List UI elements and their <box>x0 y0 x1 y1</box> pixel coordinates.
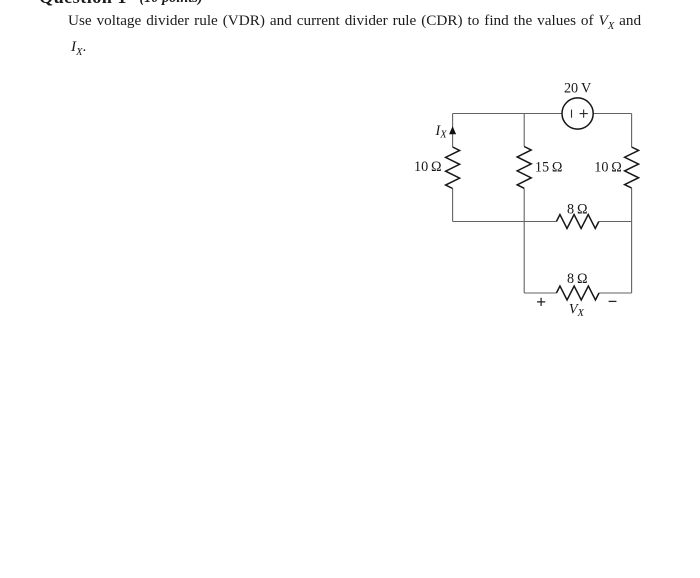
source minus terminal bar <box>571 110 573 118</box>
wire right column lower run <box>631 188 633 293</box>
paragraph line 1 <box>68 12 641 32</box>
wire middle column lower run <box>523 188 525 293</box>
svg-text:8 Ω: 8 Ω <box>567 271 587 287</box>
label minus sign of Vx <box>609 300 617 302</box>
source plus terminal sign <box>580 110 588 118</box>
wire middle column upper lead <box>523 114 525 147</box>
voltage source V1 circle 20V <box>562 98 593 129</box>
heading Question 1 (10 points), cut off at top <box>39 0 127 8</box>
svg-text:10 Ω: 10 Ω <box>594 160 622 176</box>
wire left column upper lead <box>452 114 454 148</box>
svg-text:20 V: 20 V <box>564 81 592 97</box>
wire middle rail left segment <box>453 221 557 223</box>
svg-text:8 Ω: 8 Ω <box>567 201 587 217</box>
paragraph line 2 <box>71 38 86 58</box>
resistor R4 8ohm middle rail zigzag <box>556 215 598 229</box>
svg-text:15 Ω: 15 Ω <box>535 159 563 175</box>
label plus sign of Vx <box>537 298 545 306</box>
wire bottom rail left segment <box>524 292 556 294</box>
svg-text:X: X <box>577 308 585 319</box>
wire top rail left of source <box>453 113 562 115</box>
wire top rail right of source <box>593 113 631 115</box>
resistor R2 15ohm middle zigzag <box>517 147 531 189</box>
svg-text:X: X <box>439 130 447 141</box>
wire left column lower lead <box>452 189 454 222</box>
svg-text:10 Ω: 10 Ω <box>414 159 442 175</box>
current arrow head Ix <box>450 127 456 134</box>
resistor R1 10ohm left zigzag <box>446 147 460 189</box>
resistor R3 10ohm right zigzag <box>625 147 639 188</box>
wire middle rail right segment <box>599 221 632 223</box>
resistor R5 8ohm bottom rail zigzag <box>556 286 599 300</box>
wire bottom rail right segment <box>599 292 632 294</box>
wire right column upper lead <box>631 114 633 148</box>
